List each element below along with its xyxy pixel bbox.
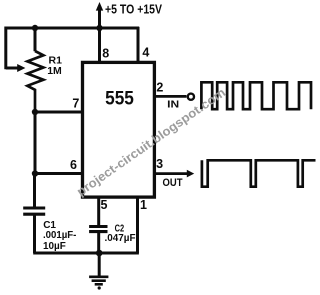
svg-text:4: 4 (142, 46, 149, 60)
svg-text:8: 8 (102, 46, 109, 60)
node dot pin6 junction (32, 170, 38, 176)
svg-text:+5 TO +15V: +5 TO +15V (105, 3, 163, 17)
wire left vertical to pin6 (35, 112, 82, 174)
wire pin2 (156, 95, 187, 98)
power arrow +V (96, 2, 103, 11)
svg-text:OUT: OUT (163, 177, 183, 189)
pin3 arrowhead (187, 170, 194, 178)
svg-text:6: 6 (70, 158, 77, 172)
svg-text:IN: IN (167, 99, 179, 111)
IN terminal circle (188, 94, 194, 100)
ground bar 3 (95, 283, 103, 286)
ground dot tip (98, 286, 101, 289)
wire top rail (6, 11, 139, 70)
IC U1 555 body (83, 62, 155, 197)
svg-text:1: 1 (140, 198, 147, 212)
C2 lead down (97, 233, 100, 253)
svg-text:3: 3 (156, 157, 163, 171)
svg-text:.001µF-: .001µF- (43, 230, 76, 241)
ground bar 1 (89, 275, 108, 278)
svg-text:2: 2 (156, 81, 163, 95)
ground stem (98, 253, 101, 277)
svg-text:1M: 1M (47, 65, 62, 77)
resistor R1 (27, 51, 43, 112)
wiper arrow into R1 (6, 67, 19, 70)
wire pin1 vertical (136, 198, 139, 253)
C1 lead down (33, 216, 36, 254)
wire pin7 to R1 bottom (35, 111, 82, 114)
svg-text:7: 7 (72, 97, 79, 111)
svg-text:555: 555 (105, 88, 134, 110)
svg-text:10µF: 10µF (43, 241, 66, 252)
node dot A (rail / +V) (96, 25, 102, 31)
ground bar 2 (92, 279, 106, 282)
wire pin8 vertical (98, 28, 101, 62)
node dot B (rail / R1 top) (32, 25, 38, 31)
svg-text:5: 5 (101, 198, 108, 212)
node dot pin7 junction (32, 109, 38, 115)
wire bottom rail (33, 252, 139, 255)
capacitor C1 (23, 208, 45, 214)
wire pin5 vertical (97, 198, 100, 226)
wire pin4 vertical (137, 27, 140, 62)
wire pin6 junction down to C1 (33, 174, 36, 207)
svg-text:.047µF: .047µF (105, 233, 136, 244)
capacitor C2 (89, 227, 107, 232)
wire pin3 (156, 172, 188, 175)
IN waveform (201, 82, 311, 109)
OUT waveform (202, 160, 316, 186)
node dot ground junction (96, 250, 103, 257)
